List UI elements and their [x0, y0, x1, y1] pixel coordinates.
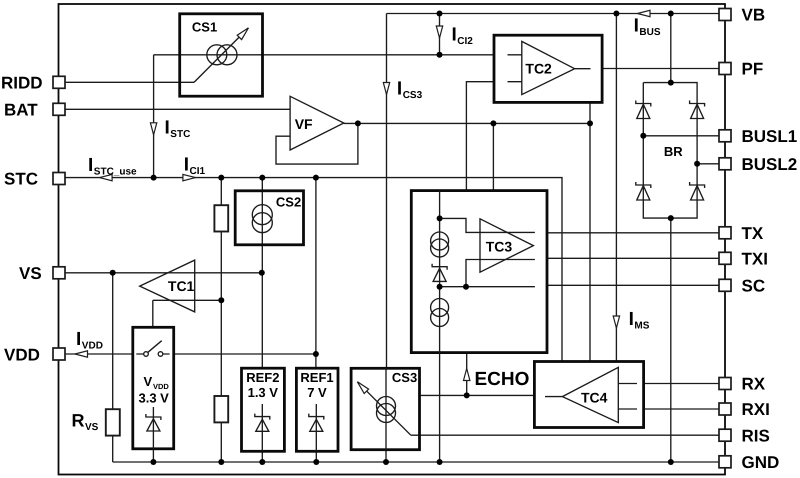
node BR/BUSL1 junction [640, 133, 646, 139]
node TC3 chain upper junction [437, 215, 443, 221]
svg-text:I: I [397, 78, 402, 99]
svg-text:REF2: REF2 [246, 370, 279, 385]
wire TC2 feed down to TC3 (from VF output line) [492, 123, 494, 190]
wire VDD line right of V_VDD block [174, 353, 316, 355]
current arrow I_CS3 [383, 78, 422, 101]
wire CS2 vertical (STC rail through CS2 down to REF2) [261, 178, 263, 369]
wire STC rail with corner down to TC4 [65, 178, 562, 362]
op-amp VF [290, 96, 344, 150]
pin VDD [53, 348, 65, 360]
current arrow I_STC_use [88, 155, 137, 181]
svg-text:VS: VS [19, 264, 42, 283]
pin PF [719, 63, 731, 75]
svg-text:MS: MS [634, 321, 649, 332]
wire VDD line left of V_VDD block [65, 353, 133, 355]
wire TC1 to V_VDD block [152, 300, 154, 327]
wire CS1 output to TC2 input [154, 54, 494, 56]
wire TXI line [547, 257, 719, 259]
svg-text:TC3: TC3 [486, 238, 513, 254]
svg-text:ECHO: ECHO [475, 369, 530, 390]
pin RXI [719, 403, 731, 415]
node VB/BR junction [668, 11, 674, 17]
svg-text:I: I [165, 118, 170, 139]
svg-text:CS2: CS2 [276, 194, 301, 209]
svg-text:VDD: VDD [4, 345, 40, 364]
current arrow I_STC [150, 118, 190, 141]
svg-text:REF1: REF1 [300, 370, 333, 385]
resistor R_VS [72, 409, 120, 435]
svg-text:VS: VS [85, 422, 99, 433]
node TC3 input jog junction [463, 284, 469, 290]
node VDD/REF1 junction [313, 351, 319, 357]
node VF line/TC3 feed junction [490, 120, 496, 126]
wire GND rail [113, 461, 719, 463]
svg-text:TX: TX [742, 224, 764, 243]
pin BUSL2 [719, 158, 731, 170]
pin SC [719, 279, 731, 291]
wire REF1 to GND rail [315, 451, 317, 462]
svg-text:VB: VB [742, 6, 766, 25]
node GND/REF1 junction [313, 459, 319, 465]
reference REF2 1.3V [242, 368, 285, 451]
svg-text:BUS: BUS [639, 27, 660, 38]
wire resistor chain vertical (STC rail to GND rail) [220, 178, 222, 462]
node VF line/TC2-TC4 junction [587, 120, 593, 126]
node BR top junction [668, 80, 674, 86]
wire TC2 output to PF pin [602, 68, 719, 70]
svg-text:R: R [72, 411, 85, 431]
svg-text:I: I [634, 16, 639, 37]
pin VS [53, 267, 65, 279]
current arrow I_MS [613, 309, 650, 332]
pin GND [719, 456, 731, 468]
pin BAT [53, 103, 65, 115]
node BR/BUSL2 junction [694, 161, 700, 167]
node STC/CS1 junction [151, 175, 157, 181]
wire CS3 output to TC4 input [420, 394, 535, 396]
svg-text:3.3 V: 3.3 V [139, 391, 170, 406]
svg-text:I: I [88, 155, 93, 176]
current arrow I_BUS [634, 10, 661, 38]
pin RIDD [53, 76, 65, 88]
resistor (STC divider upper) [214, 205, 228, 231]
wire I_CS3 vertical (VB corner down to CS3 top) [386, 14, 388, 369]
svg-text:RIS: RIS [742, 426, 770, 445]
current source CS2 [235, 191, 303, 245]
wire TC3 chain to GND rail [439, 354, 441, 462]
svg-text:7 V: 7 V [307, 385, 327, 400]
signal arrow ECHO [464, 369, 530, 391]
svg-text:CI1: CI1 [190, 166, 206, 177]
svg-text:CS3: CS3 [403, 90, 423, 101]
wire RXI line [644, 408, 719, 410]
wire VF feedback loop [276, 123, 358, 164]
svg-text:TC1: TC1 [168, 278, 195, 294]
svg-text:RXI: RXI [742, 400, 770, 419]
bridge rectifier BR [636, 83, 705, 219]
wire TC1 lower input line [153, 299, 222, 301]
node STC/resistor junction [218, 175, 224, 181]
svg-text:SC: SC [742, 276, 766, 295]
svg-text:CI2: CI2 [457, 36, 473, 47]
wire CS3 to GND rail [385, 450, 387, 462]
node STC/CS2 junction [259, 175, 265, 181]
resistor (STC divider lower) [214, 396, 228, 422]
wire TX line [547, 232, 719, 234]
svg-text:GND: GND [742, 453, 780, 472]
current arrow I_CI1 [183, 154, 206, 181]
wire RX line [644, 383, 719, 385]
svg-text:PF: PF [742, 60, 764, 79]
svg-text:TC4: TC4 [581, 390, 608, 406]
node ECHO junction [464, 392, 470, 398]
node VS/R_VS junction [110, 270, 116, 276]
node VB/I_CI2 junction [437, 11, 443, 17]
svg-text:1.3 V: 1.3 V [248, 385, 279, 400]
pin STC [53, 173, 65, 185]
svg-text:CS3: CS3 [392, 370, 417, 385]
wire I_CI2 branch (VB rail down to TC2 input line) [439, 14, 441, 55]
wire BUSL2 line [697, 163, 719, 165]
wire TC2 junction vertical (VF line up to TC2, down to TC4) [589, 102, 591, 361]
node TC3 chain lower junction [437, 284, 443, 290]
node GND/TC3 junction [437, 459, 443, 465]
svg-text:CS1: CS1 [192, 20, 217, 35]
wire RIDD line [65, 81, 194, 83]
wire BUSL1 line [643, 135, 719, 137]
pin TXI [719, 252, 731, 264]
pin BUSL1 [719, 130, 731, 142]
wire I_MS vertical (VB rail to TC4 top) [615, 14, 617, 362]
svg-text:BAT: BAT [4, 100, 38, 119]
wire CS1 branch down to STC rail [153, 55, 155, 178]
wire V_VDD block to GND rail [152, 449, 154, 462]
svg-text:I: I [184, 154, 189, 175]
svg-text:BUSL2: BUSL2 [742, 155, 798, 174]
node TC2 input/I_CI2 junction [437, 52, 443, 58]
pin RX [719, 378, 731, 390]
comparator TC2 [494, 35, 602, 102]
node VS/CS2 junction [259, 270, 265, 276]
svg-text:STC_use: STC_use [94, 166, 137, 177]
node TC1/resistor junction [218, 297, 224, 303]
wire BR bottom vertical down to GND rail [670, 218, 672, 462]
svg-text:TC2: TC2 [525, 61, 552, 77]
amplifier TC1 [140, 260, 195, 312]
svg-text:VF: VF [295, 116, 313, 132]
svg-text:I: I [452, 25, 457, 46]
pin VB [719, 9, 731, 21]
wire VB rail [387, 13, 720, 15]
wire TC2 lower input wire down to TC3 [466, 82, 494, 191]
svg-text:BR: BR [664, 144, 683, 159]
node GND/resistor junction [218, 459, 224, 465]
wire RIS line [411, 434, 719, 436]
node VF output junction [355, 120, 361, 126]
node GND/BR junction [668, 459, 674, 465]
pin TX [719, 227, 731, 239]
svg-text:I: I [76, 329, 81, 350]
svg-text:TXI: TXI [742, 249, 768, 268]
wire BAT line to VF input [65, 108, 290, 110]
node GND/V_VDD junction [150, 459, 156, 465]
current arrow I_CI2 [436, 25, 473, 48]
wire VB branch down to BR top [670, 14, 672, 83]
reference REF1 7V [296, 368, 338, 451]
wire VF output line [344, 122, 590, 124]
svg-text:RX: RX [742, 375, 766, 394]
current source CS1 [180, 14, 263, 96]
svg-text:BUSL1: BUSL1 [742, 127, 798, 146]
node GND/CS3 junction [383, 459, 389, 465]
wire REF2 to GND rail [261, 451, 263, 462]
svg-text:VDD: VDD [82, 340, 103, 351]
current source CS3 [351, 368, 419, 449]
wire VS branch down through R_VS to GND rail [112, 273, 114, 462]
svg-text:RIDD: RIDD [1, 73, 43, 92]
svg-text:I: I [629, 309, 634, 330]
svg-text:STC: STC [4, 170, 38, 189]
node GND/REF2 junction [259, 459, 265, 465]
wire SC line [547, 284, 719, 286]
node STC/REF1 junction [313, 175, 319, 181]
comparator TC4 [534, 362, 643, 428]
wire VS line [65, 272, 262, 274]
current arrow I_VDD [75, 329, 103, 357]
node BR bottom junction [668, 215, 674, 221]
regulator block V_VDD 3.3V [133, 327, 174, 449]
svg-text:STC: STC [170, 129, 190, 140]
svg-text:V: V [144, 374, 153, 389]
wire REF1 feed vertical (STC rail to REF1) [315, 178, 317, 369]
block TC3 [411, 191, 547, 354]
pin RIS [719, 429, 731, 441]
node VB/I_MS junction [613, 11, 619, 17]
wire ECHO vertical (TC3 bottom to TC4 input line) [466, 354, 468, 396]
